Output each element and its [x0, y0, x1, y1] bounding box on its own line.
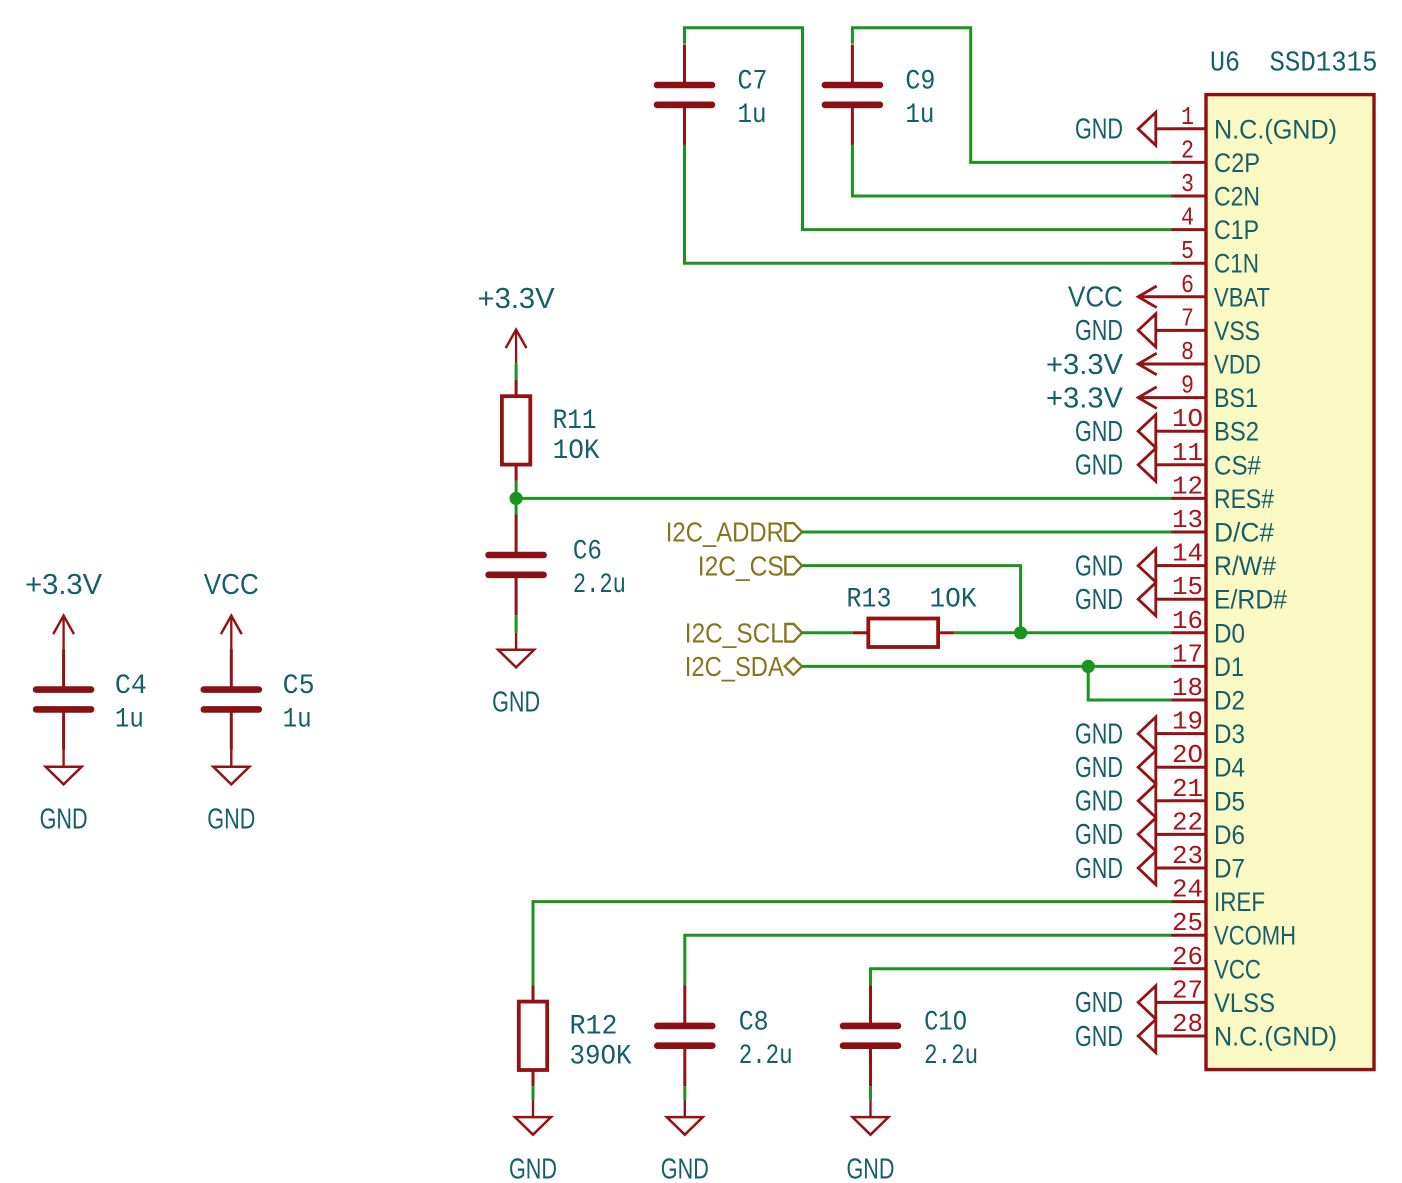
power symbol +3.3V (above R11)	[478, 283, 556, 363]
pin 22 D6	[1171, 807, 1245, 850]
hierarchical label I2C_CS (net to D0)	[698, 550, 802, 581]
svg-text:GND: GND	[1075, 786, 1123, 818]
power flag GND at pin 14	[1075, 549, 1171, 582]
pin 25 VCOMH	[1171, 908, 1296, 951]
svg-text:1: 1	[1181, 102, 1194, 132]
wire RES# net to pin 12	[516, 497, 1171, 500]
svg-text:28: 28	[1172, 1009, 1203, 1039]
svg-text:CS#: CS#	[1214, 450, 1261, 480]
power flag GND at pin 7	[1075, 314, 1171, 347]
svg-text:6: 6	[1181, 270, 1194, 300]
svg-text:I2C_ADDR: I2C_ADDR	[666, 517, 784, 548]
svg-text:5: 5	[1181, 236, 1194, 266]
svg-text:N.C.(GND): N.C.(GND)	[1214, 114, 1337, 144]
svg-text:GND: GND	[1075, 114, 1123, 146]
pin 4 C1P	[1171, 203, 1259, 246]
svg-text:14: 14	[1172, 539, 1203, 569]
pin 19 D3	[1171, 707, 1245, 750]
pin 9 BS1	[1171, 371, 1258, 414]
IC U6 SSD1315 body	[1206, 95, 1374, 1070]
svg-text:VBAT: VBAT	[1214, 282, 1270, 312]
capacitor C10 2.2u	[843, 985, 898, 1086]
svg-text:VCOMH: VCOMH	[1214, 921, 1296, 951]
power flag GND at pin 1	[1075, 112, 1171, 145]
pin 11 CS#	[1171, 438, 1261, 481]
power flag GND at pin 15	[1075, 583, 1171, 616]
svg-text:R/W#: R/W#	[1214, 551, 1276, 581]
pin 8 VDD	[1171, 337, 1261, 380]
resistor R13 10K	[853, 619, 954, 648]
svg-text:1OK: 1OK	[930, 584, 977, 615]
pin 24 IREF	[1171, 875, 1265, 918]
svg-text:R11: R11	[553, 406, 597, 437]
svg-text:VCC: VCC	[204, 569, 259, 601]
pin 2 C2P	[1171, 135, 1260, 178]
svg-text:2.2u: 2.2u	[573, 570, 626, 601]
ground symbol below C4	[40, 750, 88, 836]
svg-text:25: 25	[1172, 908, 1203, 938]
capacitor C8 2.2u	[657, 985, 712, 1086]
wire R12 to ground	[532, 1086, 535, 1100]
svg-text:C6: C6	[573, 536, 602, 567]
power flag GND at pin 11	[1075, 448, 1171, 481]
svg-text:E/RD#: E/RD#	[1214, 585, 1287, 615]
power flag GND at pin 27	[1075, 986, 1171, 1019]
svg-text:D1: D1	[1214, 652, 1244, 682]
svg-text:1u: 1u	[283, 705, 312, 736]
pin 7 VSS	[1171, 303, 1260, 346]
capacitor C4 1u	[36, 649, 91, 750]
wire C6 to ground	[515, 615, 518, 633]
pin 28 N.C.(GND)	[1171, 1009, 1337, 1052]
svg-text:7: 7	[1181, 303, 1194, 333]
svg-text:13: 13	[1172, 505, 1203, 535]
power flag +3.3V at pin 8	[1046, 349, 1171, 381]
svg-text:I2C_SDA: I2C_SDA	[685, 651, 784, 682]
pin 26 VCC	[1171, 942, 1261, 985]
junction node RES#	[509, 492, 522, 505]
svg-text:C4: C4	[115, 671, 147, 702]
svg-text:D3: D3	[1214, 719, 1245, 749]
pin 12 RES#	[1171, 471, 1274, 514]
svg-text:+3.3V: +3.3V	[1046, 382, 1123, 414]
resistor R11 10K	[502, 380, 530, 481]
ground symbol below R12	[509, 1100, 557, 1183]
svg-text:D5: D5	[1214, 786, 1245, 816]
svg-text:1u: 1u	[905, 100, 934, 131]
svg-text:I2C_CS: I2C_CS	[698, 550, 784, 581]
svg-text:19: 19	[1172, 707, 1203, 737]
capacitor C6 2.2u	[489, 515, 544, 616]
svg-text:VCC: VCC	[1214, 954, 1261, 984]
power flag GND at pin 28	[1075, 1019, 1171, 1052]
wire power to R11	[515, 363, 518, 380]
hierarchical label I2C_SDA (pin 17 D1)	[685, 651, 802, 682]
svg-text:D0: D0	[1214, 618, 1245, 648]
svg-text:GND: GND	[40, 803, 88, 835]
svg-text:SSD1315: SSD1315	[1270, 47, 1378, 80]
wire C10 to ground	[869, 1086, 872, 1100]
wire R13 to pin 16 D0	[954, 631, 1172, 634]
svg-text:VLSS: VLSS	[1214, 988, 1275, 1018]
svg-text:GND: GND	[661, 1154, 709, 1183]
pin 15 E/RD#	[1171, 572, 1287, 615]
svg-text:12: 12	[1172, 471, 1203, 501]
power flag GND at pin 10	[1075, 415, 1171, 448]
svg-text:9: 9	[1181, 371, 1194, 401]
svg-text:GND: GND	[1075, 584, 1123, 616]
power flag GND at pin 22	[1075, 818, 1171, 851]
capacitor C5 1u	[204, 649, 259, 750]
pin 17 D1	[1171, 639, 1244, 682]
resistor R12 390K	[519, 985, 547, 1086]
svg-text:8: 8	[1181, 337, 1194, 367]
svg-text:+3.3V: +3.3V	[1046, 349, 1123, 381]
svg-text:GND: GND	[492, 686, 540, 718]
pin 27 VLSS	[1171, 975, 1275, 1018]
svg-text:GND: GND	[1075, 1021, 1123, 1053]
hierarchical label I2C_ADDR (pin 13 D/C#)	[666, 517, 802, 548]
svg-text:D2: D2	[1214, 686, 1245, 716]
svg-text:21: 21	[1172, 774, 1203, 804]
svg-text:IREF: IREF	[1214, 887, 1265, 917]
pin 10 BS2	[1171, 404, 1259, 447]
power symbol VCC (above C5)	[204, 569, 259, 649]
svg-text:2O: 2O	[1172, 740, 1203, 770]
pin 1 N.C.(GND)	[1171, 102, 1337, 145]
capacitor C9 1u	[825, 45, 880, 146]
svg-text:GND: GND	[207, 803, 255, 835]
power flag VCC at pin 6	[1068, 282, 1171, 314]
svg-text:N.C.(GND): N.C.(GND)	[1214, 1022, 1337, 1052]
svg-text:GND: GND	[1075, 853, 1123, 885]
svg-text:D4: D4	[1214, 753, 1245, 783]
svg-text:BS1: BS1	[1214, 383, 1258, 413]
wire I2C_CS down to D0 net	[802, 566, 1021, 633]
svg-text:23: 23	[1172, 841, 1203, 871]
svg-text:3: 3	[1181, 169, 1194, 199]
svg-text:VSS: VSS	[1214, 316, 1260, 346]
svg-text:22: 22	[1172, 807, 1203, 837]
svg-text:VCC: VCC	[1068, 282, 1123, 314]
svg-text:VDD: VDD	[1214, 350, 1261, 380]
pin 3 C2N	[1171, 169, 1260, 212]
pin 23 D7	[1171, 841, 1245, 884]
wire C9 top to C2P pin 2	[852, 28, 1171, 163]
svg-text:RES#: RES#	[1214, 484, 1274, 514]
wire I2C_SCL to R13	[802, 631, 853, 634]
wire C8 to ground	[683, 1086, 686, 1100]
power symbol +3.3V (above C4)	[25, 569, 103, 649]
power flag GND at pin 21	[1075, 784, 1171, 817]
junction node D1	[1082, 660, 1095, 673]
wire C7 bottom to C1N pin 5	[685, 145, 1172, 264]
svg-text:15: 15	[1172, 572, 1203, 602]
svg-text:C1N: C1N	[1214, 249, 1259, 279]
wire R12 to pin 24 IREF	[533, 902, 1172, 986]
ground symbol below C10	[847, 1100, 895, 1183]
svg-text:2.2u: 2.2u	[739, 1041, 793, 1072]
wire I2C_ADDR to pin 13	[802, 531, 1172, 534]
svg-text:17: 17	[1172, 639, 1203, 669]
svg-text:24: 24	[1172, 875, 1203, 905]
ground symbol below C6	[492, 633, 540, 719]
svg-text:+3.3V: +3.3V	[25, 569, 103, 601]
svg-text:C1O: C1O	[924, 1007, 967, 1038]
svg-text:4: 4	[1181, 203, 1194, 233]
svg-text:C9: C9	[905, 66, 935, 97]
svg-text:D7: D7	[1214, 854, 1245, 884]
svg-text:D6: D6	[1214, 820, 1245, 850]
svg-text:11: 11	[1172, 438, 1203, 468]
svg-text:+3.3V: +3.3V	[478, 283, 556, 315]
svg-text:2.2u: 2.2u	[924, 1041, 978, 1072]
svg-text:GND: GND	[1075, 450, 1123, 482]
wire D1 node to pin 18 D2	[1088, 666, 1171, 700]
svg-text:C8: C8	[739, 1007, 769, 1038]
wire R11 to C6 node	[515, 481, 518, 515]
pin 18 D2	[1171, 673, 1245, 716]
junction node D0	[1014, 626, 1027, 639]
svg-text:GND: GND	[1075, 718, 1123, 750]
ground symbol below C5	[207, 750, 255, 836]
svg-text:BS2: BS2	[1214, 417, 1259, 447]
svg-text:1u: 1u	[115, 705, 144, 736]
wire C10 to pin 26 VCC	[871, 969, 1172, 986]
pin 14 R/W#	[1171, 539, 1276, 582]
svg-text:26: 26	[1172, 942, 1203, 972]
svg-text:R12: R12	[570, 1011, 618, 1042]
svg-text:16: 16	[1172, 606, 1203, 636]
wire C9 bottom to C2N pin 3	[852, 145, 1171, 196]
hierarchical label I2C_SCL (pin 16 D0)	[685, 618, 802, 649]
svg-text:27: 27	[1172, 975, 1203, 1005]
svg-text:1OK: 1OK	[553, 436, 600, 467]
svg-text:D/C#: D/C#	[1214, 518, 1274, 548]
svg-text:I2C_SCL: I2C_SCL	[685, 618, 784, 649]
svg-text:C2N: C2N	[1214, 182, 1260, 212]
svg-text:C5: C5	[283, 671, 315, 702]
svg-text:C2P: C2P	[1214, 148, 1260, 178]
svg-text:39OK: 39OK	[570, 1041, 632, 1072]
power flag GND at pin 20	[1075, 751, 1171, 784]
svg-text:GND: GND	[1075, 550, 1123, 582]
svg-text:GND: GND	[1075, 752, 1123, 784]
svg-text:U6: U6	[1210, 47, 1240, 80]
pin 5 C1N	[1171, 236, 1259, 279]
svg-text:GND: GND	[509, 1154, 557, 1183]
ground symbol below C8	[661, 1100, 709, 1183]
wire C7 top to C1P pin 4	[685, 28, 1172, 230]
power flag GND at pin 23	[1075, 851, 1171, 884]
svg-text:2: 2	[1181, 135, 1194, 165]
wire C8 to pin 25 VCOMH	[685, 935, 1172, 985]
svg-text:C7: C7	[738, 66, 768, 97]
power flag +3.3V at pin 9	[1046, 382, 1171, 414]
pin 21 D5	[1171, 774, 1245, 817]
svg-text:GND: GND	[1075, 416, 1123, 448]
svg-text:GND: GND	[847, 1154, 895, 1183]
svg-text:GND: GND	[1075, 987, 1123, 1019]
svg-text:1O: 1O	[1172, 404, 1203, 434]
pin 13 D/C#	[1171, 505, 1274, 548]
svg-text:1u: 1u	[738, 100, 767, 131]
power flag GND at pin 19	[1075, 717, 1171, 750]
wire I2C_SDA to pin 17	[802, 665, 1172, 668]
pin 16 D0	[1171, 606, 1245, 649]
svg-text:C1P: C1P	[1214, 215, 1259, 245]
capacitor C7 1u	[657, 45, 712, 146]
svg-text:GND: GND	[1075, 819, 1123, 851]
pin 20 D4	[1171, 740, 1245, 783]
pin 6 VBAT	[1171, 270, 1270, 313]
svg-text:18: 18	[1172, 673, 1203, 703]
svg-text:GND: GND	[1075, 315, 1123, 347]
svg-text:R13: R13	[847, 584, 892, 615]
